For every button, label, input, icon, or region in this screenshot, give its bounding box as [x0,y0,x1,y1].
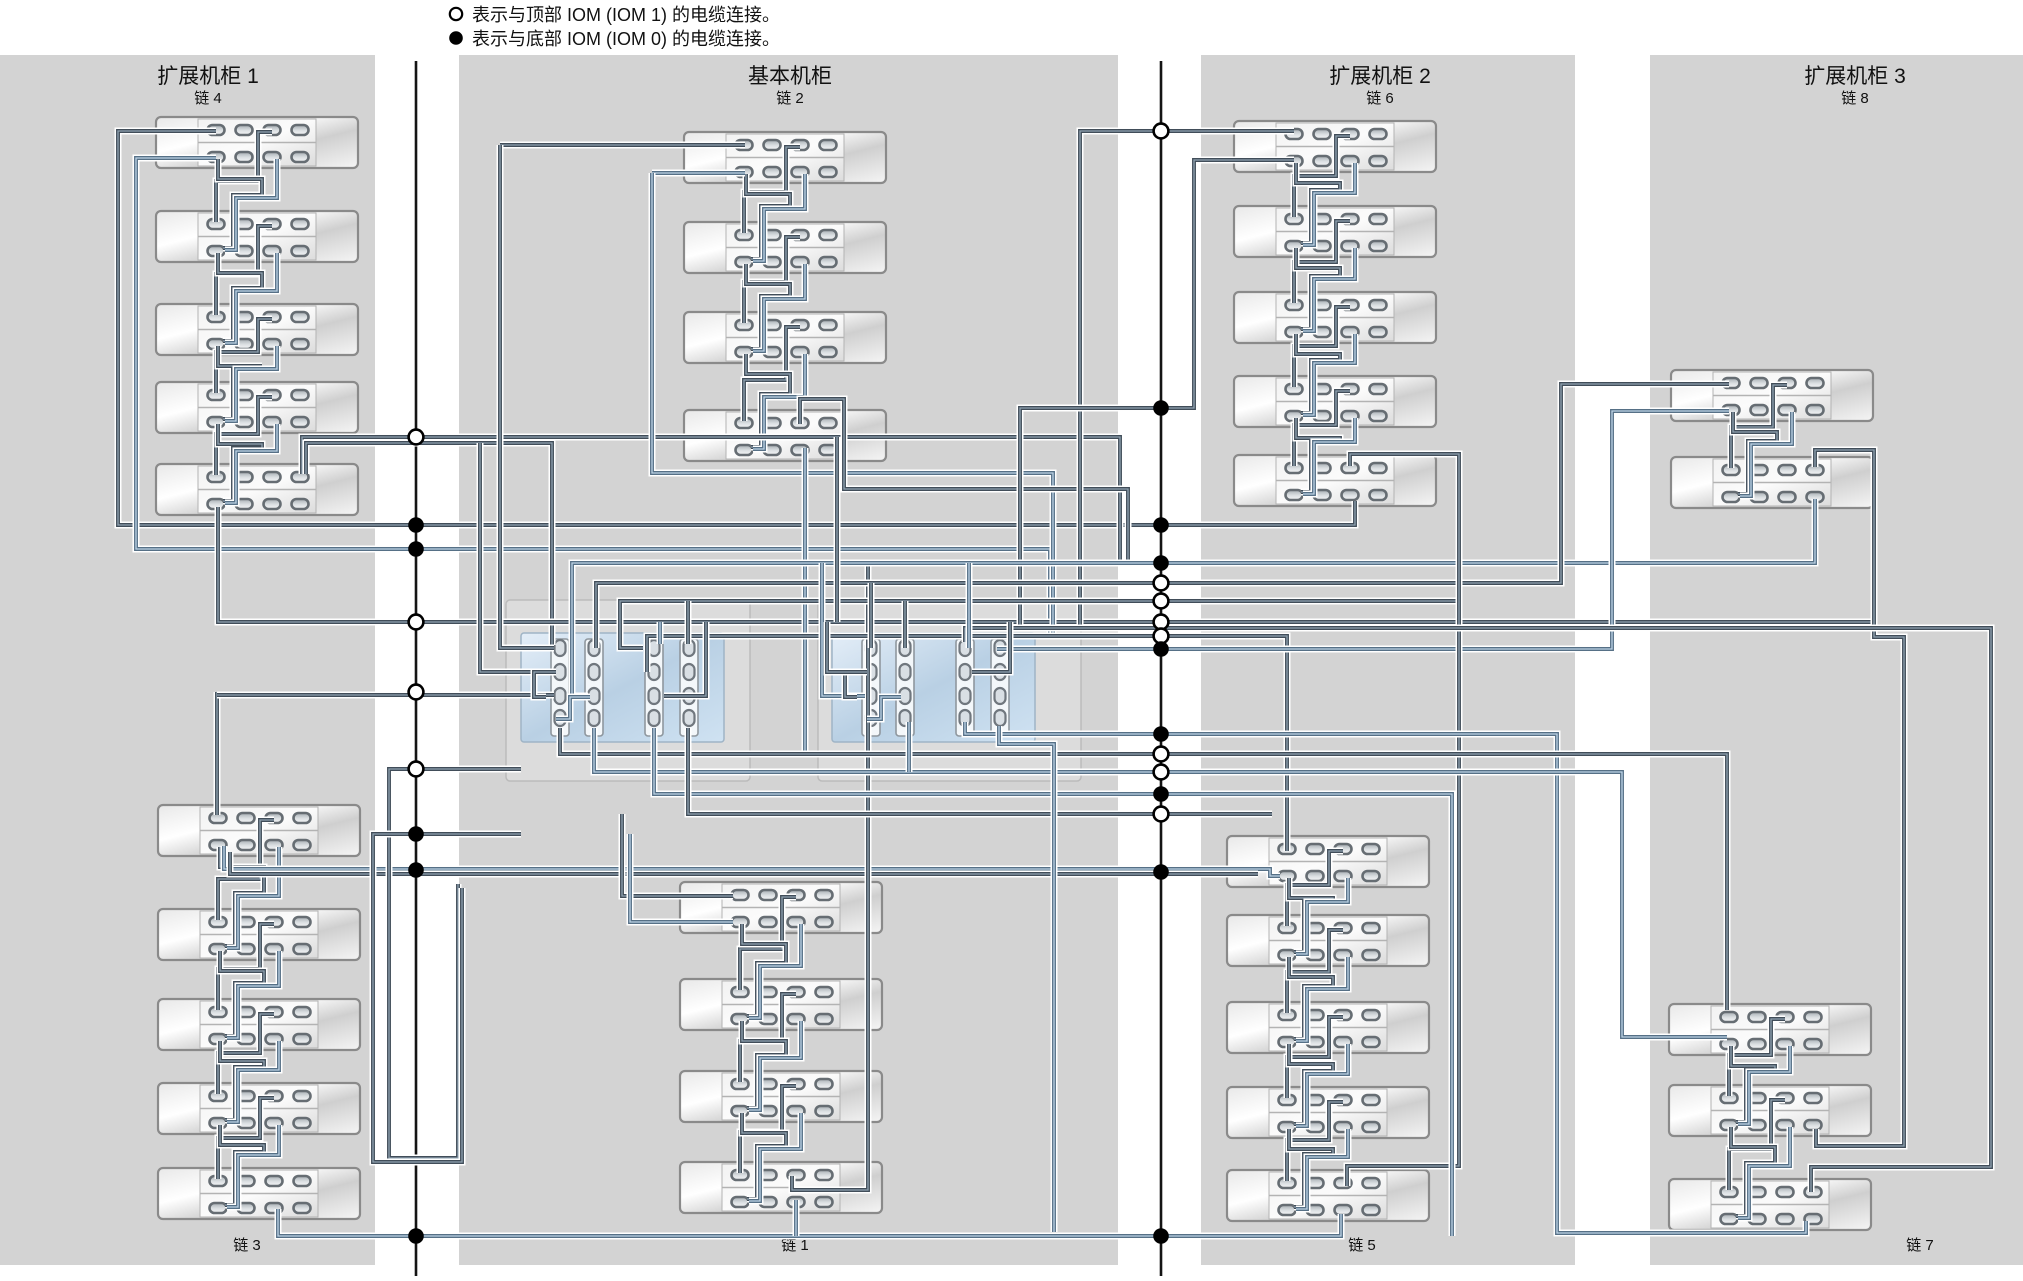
svg-text:链 2: 链 2 [776,90,804,107]
svg-text:链 7: 链 7 [1906,1237,1934,1254]
svg-text:链 6: 链 6 [1366,90,1394,107]
svg-text:扩展机柜 2: 扩展机柜 2 [1329,65,1431,88]
svg-text:基本机柜: 基本机柜 [748,65,832,88]
svg-text:扩展机柜 1: 扩展机柜 1 [157,65,259,88]
svg-text:链 4: 链 4 [194,90,222,107]
svg-text:链 3: 链 3 [233,1237,261,1254]
svg-text:表示与底部 IOM (IOM 0) 的电缆连接。: 表示与底部 IOM (IOM 0) 的电缆连接。 [472,29,780,49]
svg-text:扩展机柜 3: 扩展机柜 3 [1804,65,1906,88]
svg-text:链 8: 链 8 [1841,90,1869,107]
svg-text:链 1: 链 1 [781,1237,809,1254]
svg-text:链 5: 链 5 [1348,1237,1376,1254]
svg-text:表示与顶部 IOM (IOM 1) 的电缆连接。: 表示与顶部 IOM (IOM 1) 的电缆连接。 [472,5,780,25]
